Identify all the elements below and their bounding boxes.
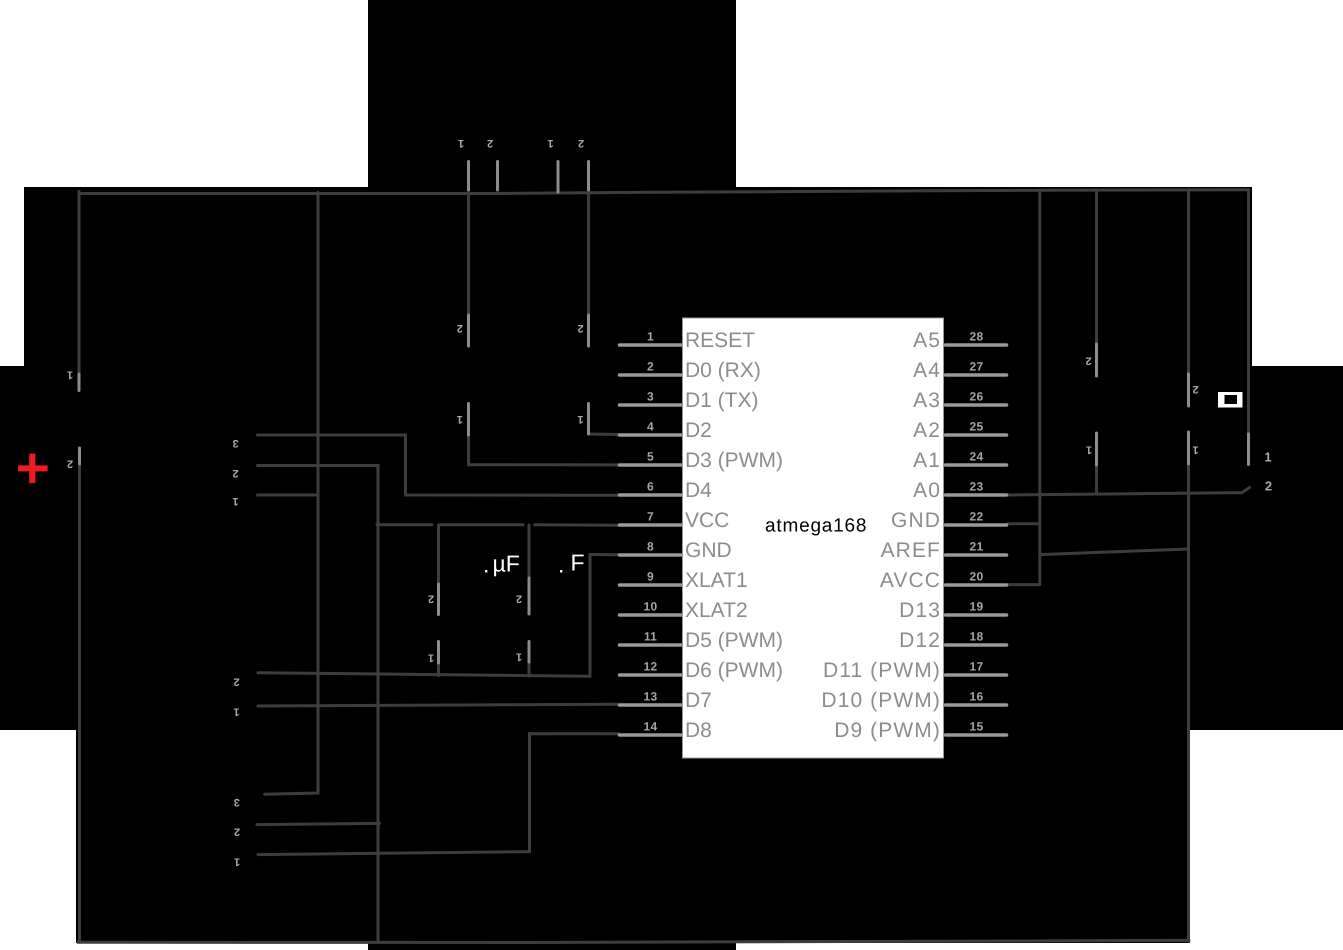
- svg-text:2: 2: [457, 322, 463, 334]
- svg-text:D5 (PWM): D5 (PWM): [685, 629, 783, 652]
- svg-text:4: 4: [647, 420, 654, 434]
- svg-text:µF: µF: [493, 551, 520, 577]
- svg-text:19: 19: [970, 600, 984, 614]
- svg-text:1: 1: [1086, 444, 1092, 456]
- svg-text:1: 1: [577, 413, 583, 425]
- svg-text:AREF: AREF: [881, 539, 941, 562]
- svg-text:D9 (PWM): D9 (PWM): [834, 719, 941, 742]
- svg-text:23: 23: [970, 480, 984, 494]
- svg-text:18: 18: [970, 630, 984, 644]
- svg-text:GND: GND: [685, 539, 732, 562]
- svg-text:24: 24: [970, 450, 984, 464]
- svg-text:1: 1: [428, 652, 434, 664]
- svg-text:3: 3: [234, 796, 240, 808]
- svg-text:D4: D4: [685, 479, 712, 502]
- svg-text:A2: A2: [913, 419, 941, 442]
- svg-text:26: 26: [970, 390, 984, 404]
- svg-text:A4: A4: [913, 359, 941, 382]
- svg-text:D11 (PWM): D11 (PWM): [823, 659, 941, 682]
- svg-text:2: 2: [233, 676, 239, 688]
- svg-text:.: .: [558, 552, 564, 578]
- svg-text:2: 2: [234, 825, 240, 837]
- svg-text:2: 2: [577, 322, 583, 334]
- svg-text:2: 2: [578, 137, 584, 149]
- svg-text:1: 1: [516, 651, 522, 663]
- svg-text:D7: D7: [685, 689, 712, 712]
- svg-text:11: 11: [644, 630, 657, 644]
- svg-text:3: 3: [232, 437, 238, 449]
- svg-text:14: 14: [644, 720, 658, 734]
- svg-text:3: 3: [647, 390, 654, 404]
- svg-text:D8: D8: [685, 719, 712, 742]
- svg-text:D0 (RX): D0 (RX): [685, 359, 761, 382]
- svg-text:25: 25: [970, 420, 984, 434]
- svg-text:6: 6: [647, 480, 654, 494]
- svg-text:XLAT1: XLAT1: [685, 569, 748, 592]
- svg-text:20: 20: [970, 570, 984, 584]
- svg-text:22: 22: [970, 510, 984, 524]
- svg-text:VCC: VCC: [685, 509, 729, 532]
- svg-text:13: 13: [644, 690, 658, 704]
- svg-text:D10 (PWM): D10 (PWM): [821, 689, 941, 712]
- svg-text:1: 1: [234, 856, 240, 868]
- svg-text:1: 1: [458, 137, 464, 149]
- svg-text:2: 2: [1192, 383, 1198, 395]
- svg-text:1: 1: [233, 706, 239, 718]
- svg-text:D12: D12: [899, 629, 941, 652]
- svg-text:2: 2: [647, 360, 654, 374]
- svg-text:1: 1: [1264, 450, 1271, 465]
- svg-text:1: 1: [232, 495, 238, 507]
- svg-text:2: 2: [516, 593, 522, 605]
- svg-text:2: 2: [1085, 355, 1091, 367]
- svg-text:16: 16: [970, 690, 984, 704]
- svg-text:F: F: [571, 550, 585, 576]
- svg-text:2: 2: [428, 593, 434, 605]
- svg-text:A3: A3: [913, 389, 941, 412]
- svg-text:1: 1: [67, 369, 73, 381]
- svg-text:2: 2: [67, 457, 73, 469]
- svg-text:8: 8: [647, 540, 654, 554]
- svg-text:1: 1: [1192, 444, 1198, 456]
- svg-text:15: 15: [970, 720, 984, 734]
- svg-text:GND: GND: [891, 509, 941, 532]
- svg-text:AVCC: AVCC: [880, 569, 941, 592]
- svg-text:D3 (PWM): D3 (PWM): [685, 449, 783, 472]
- svg-text:2: 2: [1265, 479, 1272, 494]
- svg-text:17: 17: [970, 660, 984, 674]
- svg-text:27: 27: [970, 360, 984, 374]
- svg-text:5: 5: [647, 450, 654, 464]
- svg-text:XLAT2: XLAT2: [685, 599, 748, 622]
- svg-text:10: 10: [644, 600, 658, 614]
- svg-text:12: 12: [644, 660, 658, 674]
- svg-text:1: 1: [457, 413, 463, 425]
- svg-text:A5: A5: [913, 329, 941, 352]
- svg-text:28: 28: [970, 330, 984, 344]
- svg-text:2: 2: [487, 137, 493, 149]
- svg-text:D2: D2: [685, 419, 712, 442]
- svg-text:RESET: RESET: [685, 329, 755, 352]
- svg-text:D13: D13: [899, 599, 941, 622]
- svg-text:2: 2: [232, 467, 238, 479]
- svg-text:atmega168: atmega168: [765, 516, 867, 537]
- svg-text:9: 9: [647, 570, 654, 584]
- svg-text:A0: A0: [913, 479, 941, 502]
- svg-text:1: 1: [647, 330, 654, 344]
- svg-text:.: .: [483, 552, 489, 578]
- svg-text:D6 (PWM): D6 (PWM): [685, 659, 783, 682]
- svg-text:7: 7: [647, 510, 654, 524]
- svg-text:A1: A1: [913, 449, 941, 472]
- svg-text:1: 1: [547, 137, 553, 149]
- svg-text:21: 21: [970, 540, 984, 554]
- svg-text:D1 (TX): D1 (TX): [685, 389, 759, 412]
